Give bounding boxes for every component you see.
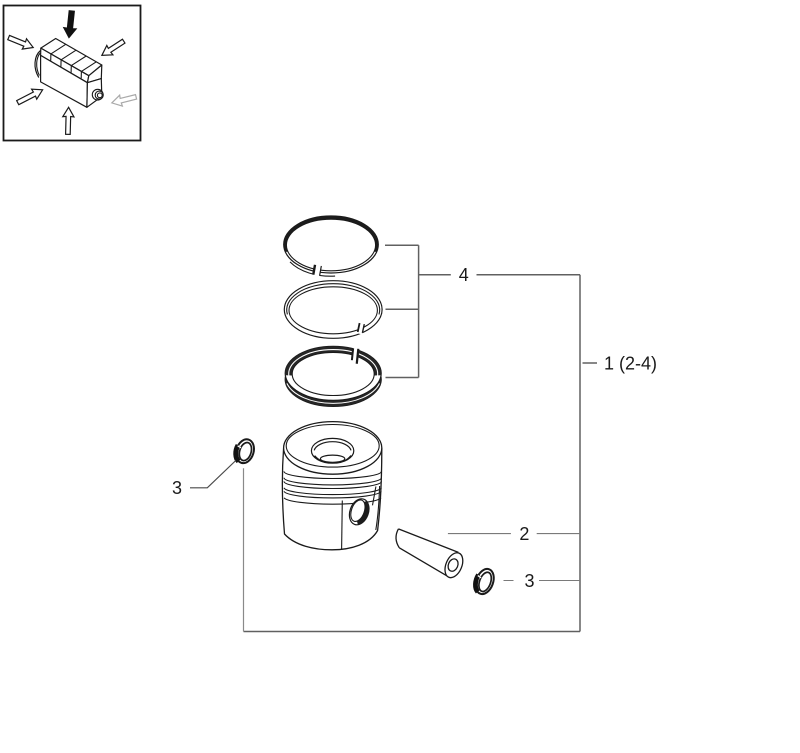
snap ring 3 (upper left) xyxy=(233,437,257,465)
leader line to label 3 upper xyxy=(190,461,236,488)
piston bowl floor xyxy=(320,455,344,462)
leader tick to label 1 xyxy=(583,362,598,364)
engine block slab divider lines xyxy=(51,44,97,78)
piston pin body xyxy=(398,529,458,577)
ring 4c gap xyxy=(352,347,359,363)
piston pin boss panel edge xyxy=(373,487,376,506)
ring group bracket xyxy=(385,245,419,377)
assembly bracket left vertical xyxy=(243,468,245,631)
solid top arrow xyxy=(63,11,77,38)
piston ring 4b (second compression ring) xyxy=(284,281,382,339)
piston bowl outer rim xyxy=(311,438,353,463)
piston ring 4c (oil control ring) xyxy=(285,346,381,406)
top-left outline arrow xyxy=(7,32,36,52)
bottom outline arrow xyxy=(62,107,74,134)
engine block front and right faces xyxy=(41,55,102,107)
assembly bracket bottom xyxy=(244,631,581,633)
assembly bracket (1) right vertical xyxy=(579,275,581,632)
ring 4a gap xyxy=(313,263,322,277)
ring 4b gap xyxy=(357,322,364,335)
piston crown ellipse xyxy=(284,422,382,475)
engine crank boss circles xyxy=(92,89,103,100)
snap ring 3 (lower right) xyxy=(472,566,497,596)
piston skirt seam line xyxy=(341,501,344,550)
piston ring groove arcs xyxy=(284,471,381,504)
svg-text:2: 2 xyxy=(519,524,529,544)
leader line to label 2 xyxy=(448,533,580,535)
left-middle outline arrow xyxy=(15,85,45,108)
top-right outline arrow xyxy=(99,36,127,60)
leader line to label 3 lower xyxy=(504,580,581,582)
engine flywheel housing arc xyxy=(35,51,41,78)
svg-text:3: 3 xyxy=(172,478,182,498)
piston pin hole xyxy=(346,496,372,527)
engine block head band xyxy=(41,39,102,83)
right outline arrow (light) xyxy=(110,91,137,108)
piston pin end face xyxy=(442,550,467,580)
svg-text:1 (2-4): 1 (2-4) xyxy=(604,354,657,374)
svg-text:4: 4 xyxy=(459,265,469,285)
piston body silhouette xyxy=(282,448,382,550)
engine orientation thumbnail frame xyxy=(4,6,141,141)
piston right inner wall line xyxy=(376,486,380,530)
piston ring 4a (top compression ring) xyxy=(284,216,379,276)
piston crown inner chamfer ellipse xyxy=(286,425,379,468)
piston bowl wall shading xyxy=(315,456,323,462)
piston bowl chamfer arc xyxy=(314,442,351,451)
leader line to label 4 xyxy=(419,274,580,276)
svg-text:3: 3 xyxy=(524,571,534,591)
piston pin left cap xyxy=(396,529,399,548)
